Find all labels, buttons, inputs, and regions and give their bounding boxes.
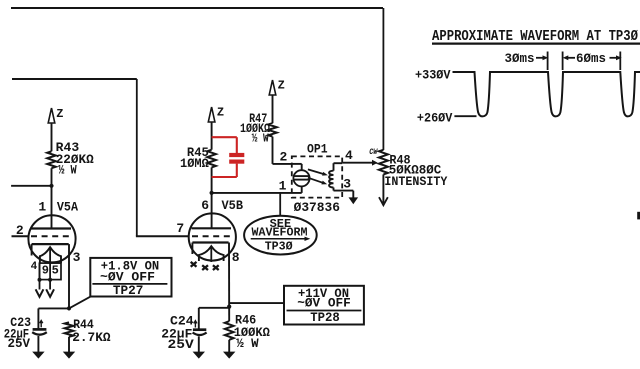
pin box 9 5 of V5A heater (40, 263, 62, 280)
resistor R44 (65, 322, 74, 337)
svg-text:4: 4 (31, 261, 38, 273)
wire junction to TP28 box (229, 302, 284, 304)
tick pulse2 left (547, 52, 549, 71)
wire Z arrow to R45 (211, 122, 213, 150)
node cathode junction V5A (67, 306, 71, 310)
svg-text:9: 9 (42, 263, 49, 277)
wire heater pin right with junction dot and arrow (49, 263, 51, 289)
partial mark right edge (637, 212, 640, 220)
svg-text:INTENSITY: INTENSITY (384, 174, 447, 189)
node Z arrow above R47 (269, 80, 276, 95)
OP1 light arrows (308, 169, 325, 174)
wire OP1 pin 4 to R48 wiper (333, 163, 335, 171)
svg-text:½ W: ½ W (58, 163, 77, 178)
wire vertical to V5B grid pin 7 (136, 79, 138, 236)
svg-text:7: 7 (176, 221, 184, 236)
svg-text:OP1: OP1 (307, 141, 328, 156)
resistor R43 (47, 151, 56, 168)
wire top supply rail (11, 7, 383, 9)
tick pulse3 left (619, 52, 621, 71)
ground arrow R44 (63, 352, 75, 359)
wire Z arrow to R47 (272, 95, 274, 123)
OP1 photoresistor coil (329, 171, 333, 188)
optocoupler OP1 dashed box (292, 156, 342, 197)
tube V5A envelope (28, 215, 75, 262)
wire +260V reference dash (454, 115, 476, 117)
svg-text:+26ØV: +26ØV (417, 110, 453, 125)
wire node to V5A plate (51, 186, 53, 229)
callout ellipse SEE WAVEFORM TP30 (244, 216, 317, 255)
svg-text:+33ØV: +33ØV (415, 67, 451, 82)
svg-text:8: 8 (232, 250, 240, 265)
svg-text:CW: CW (369, 147, 378, 157)
svg-text:TP28: TP28 (310, 311, 340, 325)
tube V5B heater (199, 246, 224, 261)
polarity plus arrow C24 (194, 321, 196, 327)
polarity plus arrow C23 (40, 321, 42, 327)
tube V5B cathode (192, 241, 228, 243)
node junction R45 / V5B plate / OP1 (210, 191, 214, 195)
wire R45 to node (211, 167, 213, 193)
tube V5A heater (40, 247, 61, 263)
svg-text:½ W: ½ W (252, 131, 270, 145)
node Z arrow above R43 (48, 108, 55, 123)
wire junction to C23 (38, 307, 69, 309)
svg-text:WAVEFORM: WAVEFORM (252, 226, 308, 240)
svg-text:V5A: V5A (57, 200, 78, 215)
ground arrow R46 (223, 352, 235, 359)
tube V5B envelope (189, 213, 236, 260)
waveform trace at TP30 (453, 72, 640, 116)
node Z arrow above R45 (208, 107, 215, 122)
wire pin 2 stub (12, 235, 30, 237)
wire V5A cathode pin 3 down to junction (68, 244, 70, 308)
svg-text:3Øms: 3Øms (505, 51, 535, 66)
wire R43 to node (51, 168, 53, 186)
wire second rail (12, 78, 137, 80)
ground arrow C24 (193, 352, 205, 359)
node cathode junction V5B (227, 305, 231, 309)
node junction R43 / V5A plate (49, 184, 53, 188)
svg-text:2: 2 (280, 150, 288, 165)
resistor R45 (207, 150, 216, 168)
tube V5B grid dashed (192, 235, 232, 237)
tube V5B cathode left leg (191, 243, 193, 255)
svg-text:4: 4 (345, 148, 353, 163)
wire V5B cathode pin 8 down (228, 243, 230, 322)
heater pin hatch marks V5B (191, 262, 197, 267)
wire pin 7 horizontal to V5B grid (136, 235, 189, 237)
tube V5B plate (192, 227, 232, 229)
OP1 LED lamp (292, 163, 302, 165)
wire junction to C24 (199, 307, 229, 309)
svg-text:APPROXIMATE WAVEFORM AT TP3Ø: APPROXIMATE WAVEFORM AT TP3Ø (432, 28, 638, 45)
svg-text:TP3Ø: TP3Ø (265, 240, 293, 254)
svg-text:Z: Z (56, 107, 63, 121)
svg-text:V5B: V5B (222, 198, 244, 213)
capacitor C24 (198, 308, 200, 329)
wire R47 to OP1 pin 2 (272, 137, 274, 164)
svg-text:TP27: TP27 (113, 284, 144, 298)
tube V5A grid dashed (31, 235, 72, 237)
wire R48 to ground arrow (382, 174, 384, 203)
tick pulse2 right (562, 52, 564, 71)
wire node to V5B plate (211, 193, 213, 228)
wire left stub to R43 node (11, 185, 51, 187)
wire heater pin left with junction dot and arrow (39, 263, 41, 289)
testpoint box TP28 (284, 286, 364, 325)
resistor R47 (268, 123, 277, 136)
ground arrow C23 (32, 352, 44, 359)
svg-text:3: 3 (73, 250, 81, 265)
wire right vertical from top rail to R48 (382, 8, 384, 150)
svg-text:~ØV OFF: ~ØV OFF (100, 270, 155, 284)
svg-text:3: 3 (343, 177, 351, 192)
tube V5A plate (31, 227, 71, 229)
svg-text:~ØV OFF: ~ØV OFF (297, 297, 351, 311)
timing label 60ms with arrows (563, 55, 569, 60)
potentiometer R48 (379, 150, 388, 175)
svg-text:6Øms: 6Øms (576, 51, 606, 66)
testpoint box TP27 (90, 258, 171, 297)
wire drop to waveform callout (279, 193, 281, 216)
svg-text:Ø37836: Ø37836 (294, 200, 341, 215)
resistor R46 (225, 321, 234, 340)
svg-text:5: 5 (52, 263, 59, 277)
wire Z arrow to R43 (51, 123, 53, 151)
wire OP1 pin 3 to ground (333, 188, 335, 191)
svg-text:Z: Z (278, 79, 285, 93)
svg-text:Z: Z (217, 106, 224, 120)
svg-text:6: 6 (201, 198, 209, 213)
svg-text:½ W: ½ W (236, 336, 259, 351)
svg-text:1ØMΩ: 1ØMΩ (180, 156, 209, 171)
svg-text:1: 1 (279, 179, 287, 194)
capacitor red mod across R45 (212, 136, 237, 138)
tube V5A cathode (32, 243, 69, 245)
svg-text:1: 1 (38, 200, 46, 215)
svg-text:25V: 25V (168, 337, 194, 352)
wire diagonal to TP27 box (69, 297, 91, 309)
capacitor C23 (37, 308, 39, 328)
svg-text:25V: 25V (8, 336, 31, 351)
wire node to OP1 pin 1 (212, 192, 302, 194)
tube V5A cathode left leg (31, 244, 33, 255)
svg-text:2.7KΩ: 2.7KΩ (72, 330, 111, 345)
